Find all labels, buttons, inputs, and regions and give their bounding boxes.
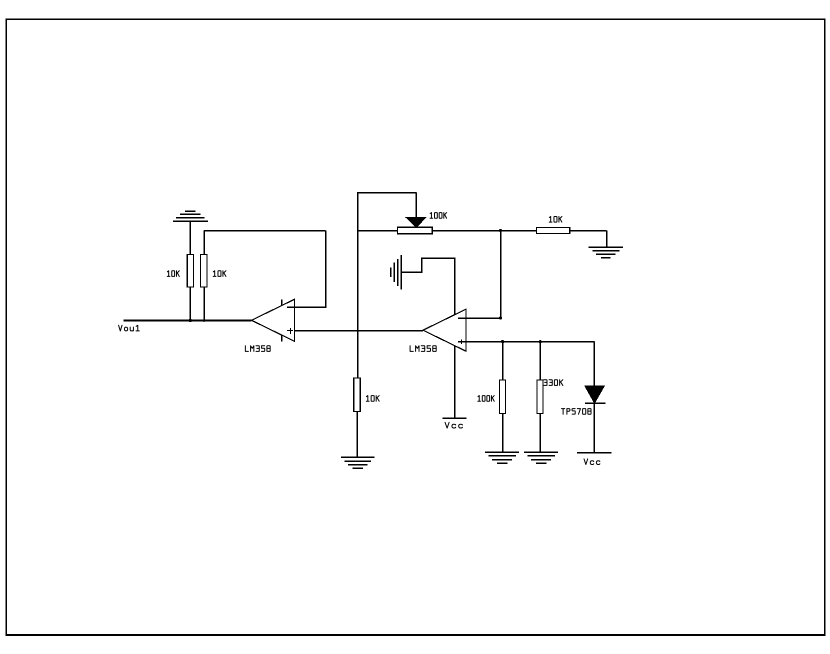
- wire rotated ground zigzag to U2 top pin: [401, 258, 454, 315]
- wire top loop horizontal: [357, 192, 417, 194]
- wire down to top-right ground: [606, 231, 608, 248]
- diode D1 TPS708: [585, 386, 606, 403]
- wire pot wiper vertical: [415, 192, 417, 218]
- wire U2 inverting vertical to pot net: [500, 231, 502, 319]
- wire R3 bottom to ground: [356, 412, 358, 458]
- wire U2 non-inverting input net: [458, 341, 594, 343]
- wire U1 inverting input: [287, 306, 326, 308]
- resistor R6 100K body: [500, 380, 506, 414]
- wire pot right lead to R5: [432, 230, 536, 232]
- ground rotated earth (U2 V- net): [391, 255, 402, 290]
- wire pot left lead: [357, 230, 398, 232]
- wire R7 bottom to ground: [539, 414, 541, 453]
- ground under R3: [341, 457, 375, 468]
- wire U1 plus input to U2 output: [295, 330, 424, 332]
- wire feedback top horizontal: [204, 230, 326, 232]
- wire R5 right lead: [570, 230, 607, 232]
- wire ground to R1 top: [189, 221, 191, 254]
- wire Vou1 net bus: [124, 320, 252, 322]
- node junction dot R2/bus: [203, 319, 206, 322]
- wire R2 bottom to bus: [203, 287, 205, 320]
- node Vou1 label: [119, 325, 140, 331]
- resistor R3 10K body: [354, 378, 361, 412]
- potentiometer R4 100K body: [398, 227, 433, 234]
- wire R2 top stub: [203, 231, 205, 255]
- power Vcc bar bottom-right: [577, 452, 611, 454]
- ground top-right earth: [588, 247, 623, 258]
- power Vcc bar U2: [442, 417, 466, 419]
- wire R7 drop: [539, 342, 541, 380]
- resistor R7 330K body: [537, 380, 543, 414]
- potentiometer R4 wiper arrow: [406, 217, 426, 227]
- ground under R7: [524, 452, 558, 463]
- wire R6 drop: [502, 342, 504, 380]
- node junction dot bus crossing: [357, 330, 359, 332]
- node junction dot R7 tap: [539, 340, 542, 343]
- wire top loop left vertical down to R3: [357, 192, 359, 378]
- resistor R5 10K body: [536, 227, 569, 233]
- ground under R6: [485, 452, 519, 463]
- wire diode cathode to Vcc: [593, 403, 595, 453]
- wire U2 bottom pin to Vcc: [454, 346, 456, 419]
- node junction dot R6 tap: [501, 340, 504, 343]
- resistor R1 10K body: [187, 255, 193, 288]
- wire U2 inverting input: [466, 317, 502, 319]
- resistor R2 10K body: [201, 255, 208, 288]
- op-amp U1 LM358: [252, 299, 295, 341]
- wire feedback right vertical: [325, 231, 327, 308]
- node junction dot pot net / U2 inverting: [499, 229, 502, 232]
- wire diode drop from plus net: [593, 342, 595, 387]
- op-amp U2 LM358: [423, 309, 466, 351]
- wire R1 bottom to bus: [189, 287, 191, 320]
- node junction dot inverting corner: [499, 317, 502, 320]
- node junction dot R1/bus: [189, 319, 192, 322]
- ground top-left (flipped earth): [173, 211, 208, 221]
- wire R6 bottom to ground: [502, 414, 504, 453]
